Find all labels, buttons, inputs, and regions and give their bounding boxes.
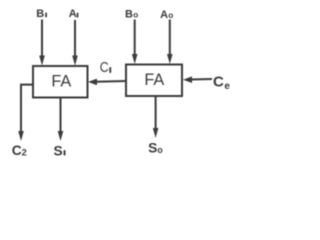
svg-text:o: o bbox=[168, 11, 173, 20]
wire S0 sum output of U0 bbox=[153, 96, 159, 138]
label C2 bbox=[12, 143, 27, 158]
wire B0 input bbox=[132, 20, 138, 65]
wire A0 input bbox=[167, 20, 173, 65]
svg-text:o: o bbox=[133, 11, 138, 20]
label A0 bbox=[160, 9, 173, 21]
wire S1 sum output of U1 bbox=[58, 98, 64, 142]
label A1 bbox=[69, 8, 79, 20]
svg-text:2: 2 bbox=[22, 148, 27, 158]
svg-text:C: C bbox=[12, 143, 22, 158]
label B0 bbox=[125, 9, 138, 21]
full adder U0 (right FA box) bbox=[126, 65, 182, 97]
wire Ce carry input into U0 bbox=[183, 76, 212, 83]
label B1 bbox=[36, 8, 47, 20]
wire B1 input bbox=[39, 20, 45, 66]
svg-text:FA: FA bbox=[144, 71, 164, 89]
svg-text:C: C bbox=[213, 73, 224, 90]
svg-text:B: B bbox=[125, 9, 133, 21]
svg-text:S: S bbox=[148, 141, 157, 156]
label S0 bbox=[148, 141, 163, 156]
label Ce (carry input) bbox=[213, 73, 230, 92]
svg-text:e: e bbox=[224, 81, 230, 92]
svg-text:S: S bbox=[54, 144, 63, 159]
wire C1 carry from U0 to U1 bbox=[88, 79, 126, 86]
label C1 (carry between stages) bbox=[100, 59, 111, 75]
svg-text:o: o bbox=[157, 145, 163, 155]
svg-text:B: B bbox=[36, 8, 44, 20]
svg-text:FA: FA bbox=[51, 73, 71, 91]
full adder U1 (left FA box) bbox=[33, 66, 88, 98]
svg-text:A: A bbox=[160, 9, 168, 21]
svg-text:A: A bbox=[69, 8, 77, 20]
label S1 bbox=[54, 144, 66, 159]
wire C2 carry output of U1 bbox=[18, 85, 33, 141]
svg-text:C: C bbox=[100, 59, 109, 75]
wire A1 input bbox=[72, 20, 78, 66]
